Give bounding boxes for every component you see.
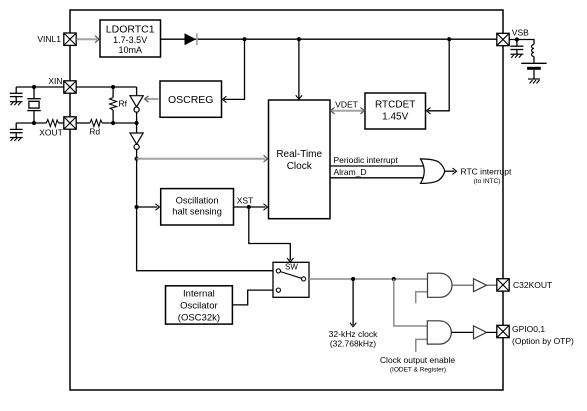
wire: XIN internal net [76,86,136,88]
node: 32k arrow tap [351,277,355,281]
wire: enable input of lower AND gate [416,339,428,351]
svg-text:halt sensing: halt sensing [172,207,222,217]
node XST junction [247,205,251,209]
and-gate U6 (GPIO enable) [427,321,451,344]
capacitor (VSB backup cap) [510,40,523,55]
ground (VSB cap) [510,54,523,58]
wire: inverter chain [136,112,138,133]
svg-text:XOUT: XOUT [39,128,63,138]
svg-text:Periodic interrupt: Periodic interrupt [334,155,399,165]
wire: gate to buffer (GPIO) [451,331,473,333]
svg-text:(32.768kHz): (32.768kHz) [330,339,376,349]
wire: Alram_D [330,177,423,179]
node: XIN-crystal junction [32,85,36,89]
wire: enable input of upper AND gate [416,292,428,304]
node: Rf bottom junction [111,121,115,125]
node: chain-XOUT junction [135,121,139,125]
crystal X1 [27,87,41,123]
svg-text:Rd: Rd [89,127,100,137]
svg-text:(Option by OTP): (Option by OTP) [512,336,574,346]
pin XOUT [64,117,76,129]
svg-text:RTCDET: RTCDET [375,100,415,111]
svg-text:1.7-3.5V: 1.7-3.5V [113,35,147,45]
pin GPIO0,1 [497,325,509,337]
capacitor CD (XOUT load cap) [10,123,23,138]
wire: XST to switch control [249,207,290,260]
buffer U5 (C32KOUT driver) [474,279,487,292]
node: Rf top junction [111,85,115,89]
resistor Rf [110,87,117,123]
wire: internal oscillator to switch [232,290,273,305]
svg-text:Oscillation: Oscillation [176,196,219,206]
and-gate U4 (C32KOUT enable) [428,273,453,297]
wire: gate to buffer (C32KOUT) [452,284,473,286]
svg-text:LDORTC1: LDORTC1 [106,24,155,36]
wire: XOUT external net [16,122,46,124]
wire: OSCREG output to inverter (gray arrow) [146,98,159,100]
wire: buffer to GPIO pin [487,331,497,333]
wire: rail drop to Real-Time Clock [298,39,300,98]
ground (XIN cap) [10,102,23,106]
svg-text:(IODET & Register): (IODET & Register) [390,367,446,374]
svg-text:Real-Time: Real-Time [276,149,322,160]
svg-text:Oscilator: Oscilator [180,301,217,312]
svg-text:GPIO0,1: GPIO0,1 [512,324,545,334]
wire: 32-kHz clock arrow down [352,279,354,325]
inverter U1 (oscillator) [130,96,143,113]
node: rail junction to RTC [297,37,301,41]
wire VDET (gray double arrow) [332,110,363,112]
wire: rail drop to OSCREG [224,39,245,99]
oscillator regulator OSCREG [160,81,222,117]
wire: XIN external net [16,86,64,88]
svg-text:1.45V: 1.45V [382,112,408,123]
ground (XOUT cap) [10,138,23,142]
svg-text:XST: XST [237,196,254,206]
wire: XOUT internal net [76,122,90,124]
diode D1 [185,33,197,45]
node: rail junction to RTCDET feedback [447,37,451,41]
svg-text:VSB: VSB [512,28,529,38]
svg-text:XIN: XIN [48,76,62,86]
ground (battery) [528,79,540,84]
resistor Rd [90,120,102,127]
resistor external damping (XOUT) [46,120,58,127]
svg-text:VINL1: VINL1 [37,34,61,44]
svg-text:Rf: Rf [119,99,128,109]
wire: 32-kHz clock net from switch [309,278,428,280]
svg-text:SW: SW [285,263,298,272]
svg-text:(OSC32k): (OSC32k) [178,313,220,324]
wire: Periodic interrupt [330,165,423,167]
capacitor CG (XIN load cap) [10,87,23,102]
svg-text:10mA: 10mA [118,45,142,55]
pin VSB [497,33,509,45]
node: clock tap to RTC [135,157,139,161]
resistor (battery series) [532,45,534,57]
node: rail junction to OSCREG [242,37,246,41]
wire: tap to oscillation halt sensing [137,206,158,208]
inverter U2 (buffer) [130,133,143,149]
block Oscillation halt sensing [161,189,234,225]
svg-text:C32KOUT: C32KOUT [513,280,552,290]
wire: XST net to RTC [234,206,266,208]
wire: inverter output down the left side [137,150,273,271]
wire: feedback from VSB rail to RTCDET [428,39,449,111]
block Internal Oscilator (OSC32k) [166,286,233,324]
pin C32KOUT [497,279,509,291]
node: VSB cap junction [515,37,519,41]
pin VINL1 [64,33,76,45]
wire: power rail from LDORTC1 to VSB [161,38,498,40]
svg-text:32-kHz clock: 32-kHz clock [329,329,378,339]
wire: RTC interrupt output [445,170,455,172]
chip outline [70,10,503,390]
node: XOUT-crystal junction [32,121,36,125]
svg-text:OSCREG: OSCREG [168,94,214,106]
wire: XIN to inverter [136,87,138,96]
battery BT1 [521,57,547,79]
block Real-Time Clock [269,100,331,219]
wire: branch to lower AND gate [394,279,428,326]
node: halt-sensing tap [135,205,139,209]
svg-text:Clock output enable: Clock output enable [380,355,455,365]
svg-text:Alram_D: Alram_D [334,167,367,177]
wire: VINL1 to LDORTC1 (gray arrow) [77,38,98,40]
svg-text:Internal: Internal [183,289,215,300]
svg-text:Clock: Clock [287,161,313,172]
wire: buffer to C32KOUT pin [487,284,497,286]
wire: 32k clock to Real-Time Clock (gray arrow) [137,158,266,160]
node: branch to GPIO gate [392,277,396,281]
svg-text:RTC interrupt: RTC interrupt [461,167,512,177]
buffer U7 (GPIO driver) [474,326,487,339]
block RTCDET [365,93,426,129]
or-gate U3 (RTC interrupt) [421,159,445,184]
wire: VSB external net [509,40,534,45]
svg-text:VDET: VDET [335,100,358,110]
switch SW [273,262,309,297]
regulator LDORTC1 [100,20,161,57]
svg-text:(to INTC): (to INTC) [474,178,501,185]
pin XIN [64,81,76,93]
